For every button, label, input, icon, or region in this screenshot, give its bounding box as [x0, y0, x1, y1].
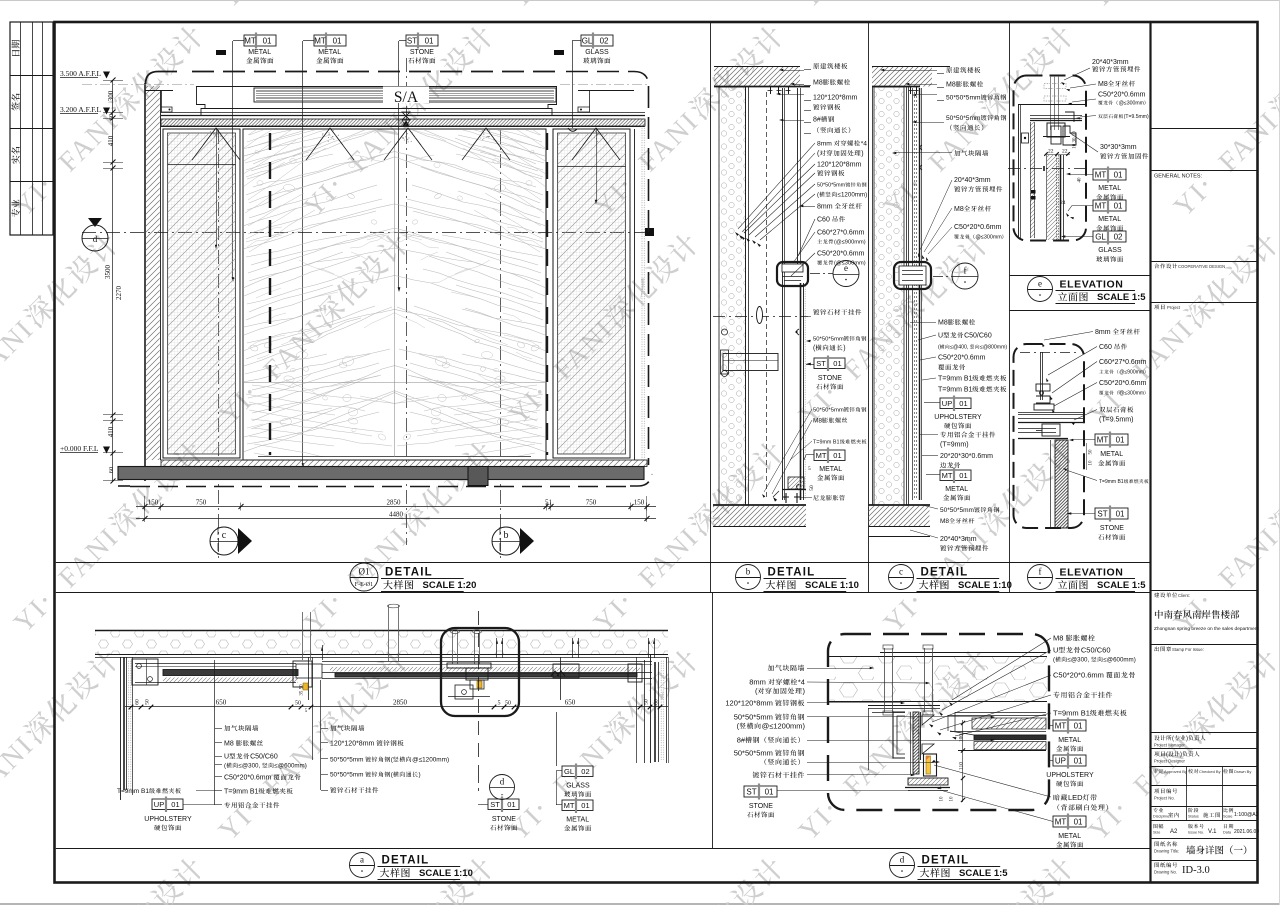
svg-text:b: b	[504, 530, 509, 541]
svg-text:02: 02	[581, 767, 589, 776]
svg-text:f: f	[1039, 567, 1042, 577]
svg-text:ST: ST	[746, 787, 756, 796]
detail d left wall below band	[868, 708, 870, 770]
svg-text:ELEVATION: ELEVATION	[1060, 567, 1124, 579]
detail a axis d	[478, 611, 480, 775]
svg-text:60: 60	[654, 699, 660, 705]
detail d angle clips	[922, 715, 934, 725]
svg-text:): )	[419, 772, 421, 779]
svg-text:Scale: Scale	[1223, 815, 1233, 819]
svg-text:(T=9mm): (T=9mm)	[940, 442, 969, 449]
svg-text:STONE: STONE	[749, 803, 773, 810]
finish tag GL02	[581, 35, 613, 46]
svg-text:MT: MT	[314, 36, 326, 45]
svg-text:02: 02	[1114, 232, 1123, 241]
svg-text:2850: 2850	[393, 699, 408, 707]
detail b annotations top	[813, 63, 819, 69]
svg-text:U: U	[938, 333, 943, 340]
detail a callout interior bolts	[452, 630, 454, 664]
panel divider lines	[710, 23, 712, 592]
detail a bolts through band left	[302, 612, 304, 660]
detail a tag ST01	[488, 799, 519, 810]
svg-text:Project No.: Project No.	[1154, 796, 1175, 801]
svg-text:GLASS: GLASS	[1098, 247, 1122, 254]
detail c floor slab	[869, 504, 931, 506]
svg-text:M8: M8	[946, 82, 956, 89]
svg-text:60: 60	[108, 467, 115, 474]
title block frame	[1149, 22, 1151, 883]
detail a callout box	[441, 628, 519, 716]
svg-text:410: 410	[107, 426, 115, 437]
detail c aerated block wall	[874, 87, 904, 505]
svg-text:8mm: 8mm	[817, 204, 833, 211]
detail c annotations	[946, 67, 952, 73]
svg-text:SCALE 1:10: SCALE 1:10	[958, 580, 1012, 591]
svg-text:-: -	[501, 790, 504, 799]
svg-text:@≤900mm: @≤900mm	[1119, 370, 1144, 376]
svg-text:T=9mm B1: T=9mm B1	[938, 387, 973, 394]
detail d stone column left	[913, 712, 919, 774]
svg-text:01: 01	[959, 399, 967, 408]
svg-text:UP: UP	[154, 800, 164, 809]
svg-text:DETAIL: DETAIL	[385, 567, 433, 579]
svg-text:120*120*8mm: 120*120*8mm	[330, 741, 375, 748]
svg-text:UPHOLSTERY: UPHOLSTERY	[1046, 772, 1094, 779]
svg-text:22: 22	[1062, 149, 1068, 155]
detail b stone hooks	[797, 329, 800, 490]
svg-text:8#: 8#	[737, 736, 746, 745]
svg-text:): )	[1180, 752, 1182, 758]
svg-text:U: U	[1053, 646, 1058, 655]
svg-text:ID-3.0: ID-3.0	[1182, 865, 1210, 876]
elevation f tag ST01	[1095, 508, 1128, 519]
svg-text:METAL: METAL	[566, 817, 589, 824]
elevation e central hatch column	[1047, 155, 1058, 240]
svg-text:120*120*8mm: 120*120*8mm	[813, 95, 858, 102]
S/A signage band	[196, 86, 557, 88]
detail d bottom trim	[908, 778, 948, 785]
svg-text:*4: *4	[861, 141, 868, 148]
svg-text:01: 01	[765, 787, 774, 796]
svg-text:M8: M8	[940, 518, 949, 525]
node marker rects	[216, 50, 226, 55]
elevation e tag MT01 no1	[1093, 169, 1126, 180]
svg-text:50*50*5mm: 50*50*5mm	[813, 408, 844, 414]
svg-text:M8: M8	[1098, 81, 1108, 88]
svg-text:U: U	[224, 754, 229, 761]
svg-text:COOPERATIVE DESIGN: COOPERATIVE DESIGN	[1178, 264, 1225, 269]
svg-text:Ø1: Ø1	[359, 567, 370, 577]
svg-text:Size: Size	[1153, 831, 1160, 835]
svg-text:GL: GL	[564, 767, 574, 776]
svg-text:Drawn By: Drawn By	[1234, 769, 1251, 774]
title block rows	[1152, 128, 1258, 130]
svg-text:C50*20*0.6mm: C50*20*0.6mm	[1053, 671, 1104, 680]
detail b ceiling runner callout	[777, 262, 808, 286]
svg-text:8mm: 8mm	[817, 141, 832, 148]
svg-text:LED: LED	[1068, 793, 1083, 802]
svg-text:750: 750	[196, 499, 207, 507]
detail c ceiling slab	[872, 66, 950, 68]
svg-text:Project: Project	[1167, 305, 1181, 310]
svg-text:(: (	[938, 345, 940, 351]
detail d tag UP01	[1053, 755, 1086, 766]
svg-text:8#: 8#	[813, 117, 821, 124]
svg-text:MT: MT	[942, 471, 953, 480]
vertical dimension chain left	[112, 80, 114, 481]
svg-text:a: a	[360, 855, 364, 865]
svg-text:01: 01	[1074, 756, 1083, 765]
svg-text:SCALE 1:5: SCALE 1:5	[959, 868, 1008, 879]
detail a hanger arrows	[496, 638, 498, 658]
svg-text:c: c	[222, 530, 227, 541]
elevation e mid level line	[1008, 168, 1090, 170]
svg-text:C50/C60: C50/C60	[964, 333, 992, 340]
level dash-dot extension lines	[82, 84, 194, 86]
svg-text:20*20*30*0.6mm: 20*20*30*0.6mm	[940, 453, 993, 460]
elevation f stone column	[1055, 440, 1068, 528]
svg-text:METAL: METAL	[248, 49, 271, 56]
revision table (left margin)	[10, 22, 53, 235]
svg-text:GL: GL	[582, 36, 593, 45]
svg-text:C60: C60	[1099, 344, 1112, 351]
svg-text:SCALE 1:5: SCALE 1:5	[1097, 580, 1146, 591]
svg-text:S/A: S/A	[394, 89, 419, 106]
detail a stone run	[322, 661, 652, 663]
detail a concrete wall band	[95, 630, 668, 632]
svg-text:01: 01	[1114, 170, 1123, 179]
svg-text:1:100@A2: 1:100@A2	[1234, 812, 1259, 818]
svg-text:DETAIL: DETAIL	[768, 567, 816, 579]
svg-text:C60: C60	[817, 217, 830, 224]
detail d tag MT01 no1	[1053, 720, 1086, 731]
svg-text:@≤1200mm): @≤1200mm)	[412, 757, 449, 764]
svg-text:02: 02	[600, 36, 609, 45]
svg-text:F-E-Ø1: F-E-Ø1	[355, 582, 373, 588]
detail a left jamb	[120, 657, 122, 800]
svg-text:UP: UP	[942, 399, 952, 408]
svg-text:GENERAL NOTES:: GENERAL NOTES:	[1154, 174, 1203, 180]
svg-text:(@≤300mm): (@≤300mm)	[834, 261, 866, 267]
svg-text:C50*20*0.6mm: C50*20*0.6mm	[938, 355, 986, 362]
elevation e gypsum layers	[1030, 115, 1082, 117]
detail d dashed rounded border	[828, 634, 1049, 810]
svg-text:MT: MT	[1097, 435, 1109, 444]
view title Ø1 DETAIL	[350, 563, 378, 591]
grid bubble c	[210, 527, 238, 555]
detail b tag ST01	[814, 358, 845, 369]
title block: cooperative design	[1154, 263, 1159, 268]
svg-text:M8: M8	[1053, 634, 1063, 643]
svg-text:MT: MT	[564, 801, 575, 810]
svg-text:d: d	[500, 777, 505, 787]
svg-text:M8: M8	[813, 80, 823, 87]
view title d DETAIL	[890, 853, 915, 878]
elevation f hanger C60	[1036, 384, 1050, 391]
detail c tag UP01	[940, 398, 971, 409]
svg-text:ST: ST	[407, 36, 417, 45]
svg-text:SCALE 1:20: SCALE 1:20	[423, 580, 477, 591]
svg-text:Client:: Client:	[1178, 593, 1190, 598]
floor boundary dashed	[118, 485, 130, 487]
svg-text:MT: MT	[1055, 817, 1067, 826]
detail d bolts	[884, 648, 886, 712]
vertical axis b	[500, 130, 502, 558]
svg-text:Drawing No.: Drawing No.	[1154, 870, 1177, 875]
svg-text:150: 150	[148, 499, 159, 507]
finish tag MT01 no.2	[314, 35, 346, 46]
svg-text:Approved By: Approved By	[1164, 769, 1187, 774]
detail c slab anchor bolts	[910, 87, 912, 94]
svg-text:01: 01	[263, 36, 272, 45]
svg-text:Checked By: Checked By	[1199, 769, 1221, 774]
svg-text:METAL: METAL	[1098, 216, 1121, 223]
vertical axis c	[218, 130, 220, 558]
detail b ceiling slab	[714, 66, 800, 68]
svg-text:ELEVATION: ELEVATION	[1060, 279, 1124, 291]
detail a text column 2	[330, 725, 336, 731]
svg-text:≤@300,: ≤@300,	[1068, 657, 1090, 664]
svg-text:51: 51	[545, 499, 553, 507]
svg-text:60: 60	[108, 114, 115, 121]
svg-text:Zhongnan spring breeze on the: Zhongnan spring breeze on the sales depa…	[1154, 626, 1259, 632]
svg-text:ST: ST	[1097, 509, 1107, 518]
svg-text:3500: 3500	[104, 265, 112, 280]
detail b bottom bracket	[788, 477, 804, 489]
svg-text:01: 01	[1074, 721, 1083, 730]
base skirting band	[161, 460, 647, 467]
elevation f tag MT01	[1095, 434, 1128, 445]
svg-text:50*50*5mm: 50*50*5mm	[734, 713, 773, 722]
svg-text:GLASS: GLASS	[566, 783, 590, 790]
svg-text:STONE: STONE	[410, 49, 434, 56]
svg-text:M8: M8	[954, 206, 964, 213]
svg-text:C50*20*0.6mm: C50*20*0.6mm	[1099, 380, 1147, 387]
detail b hanger level line	[713, 316, 808, 318]
title block: approved/checked/drawn	[1186, 766, 1188, 786]
title block: project no	[1154, 789, 1159, 794]
svg-text:01: 01	[333, 36, 342, 45]
svg-text:METAL: METAL	[318, 49, 341, 56]
detail d LED strip	[924, 754, 937, 776]
svg-text:M8: M8	[938, 320, 948, 327]
svg-text:50*50*5mm: 50*50*5mm	[330, 757, 363, 764]
svg-text:10 30 10: 10 30 10	[1073, 131, 1078, 149]
svg-text:(: (	[1172, 736, 1174, 742]
svg-text:SCALE 1:10: SCALE 1:10	[419, 868, 473, 879]
detail d LED annotation	[1054, 794, 1060, 800]
svg-text:50: 50	[295, 701, 301, 707]
svg-text:20*40*3mm: 20*40*3mm	[954, 177, 991, 184]
svg-text:e: e	[1038, 279, 1042, 289]
elevation f dashed border	[1014, 344, 1085, 528]
svg-text:Issue No.: Issue No.	[1188, 831, 1204, 835]
svg-text:750: 750	[586, 499, 597, 507]
svg-text:≤@800mm): ≤@800mm)	[980, 345, 1007, 351]
svg-text:STONE: STONE	[492, 816, 516, 823]
title block: client	[1154, 592, 1159, 597]
svg-text:M8: M8	[813, 418, 822, 425]
svg-text:300: 300	[107, 90, 115, 101]
hanger tent symbols	[192, 128, 240, 160]
left crosshatch panel	[163, 129, 240, 458]
svg-text:110: 110	[959, 762, 965, 770]
svg-text:50*50*5mm: 50*50*5mm	[330, 772, 363, 779]
svg-text:20*40*3mm: 20*40*3mm	[940, 536, 977, 543]
svg-text:Data: Data	[1223, 831, 1232, 835]
svg-text:): )	[1186, 736, 1188, 742]
ceiling lower edge and trim hatch	[161, 112, 645, 114]
detail c hook symbol	[920, 145, 922, 170]
svg-text:*4: *4	[798, 678, 805, 687]
svg-text:d: d	[900, 855, 905, 865]
svg-text:MT: MT	[244, 36, 256, 45]
horizontal centerline axis	[82, 232, 650, 234]
svg-text:50*50*5mm: 50*50*5mm	[817, 183, 846, 189]
detail b aerated block wall	[719, 87, 746, 505]
svg-text:@≤1200mm): @≤1200mm)	[762, 722, 806, 731]
svg-text:01: 01	[959, 471, 967, 480]
title block: stamp for issue	[1154, 646, 1159, 651]
svg-text:50: 50	[145, 699, 151, 705]
view title c DETAIL	[889, 565, 914, 590]
svg-text:T=9mm B1: T=9mm B1	[117, 788, 149, 795]
svg-text:650: 650	[565, 699, 576, 707]
panel joint thick dashes	[269, 133, 271, 455]
svg-text:b: b	[746, 567, 751, 577]
detail a mid bracket assembly	[293, 661, 312, 687]
svg-text:GL: GL	[1095, 232, 1106, 241]
ceiling wall end caps	[146, 90, 174, 92]
svg-text:50: 50	[1089, 449, 1094, 455]
svg-text:01: 01	[1116, 509, 1125, 518]
detail a mid-span bolts	[388, 605, 390, 662]
svg-text:METAL: METAL	[945, 486, 968, 493]
elevation f bracket mid	[1042, 424, 1060, 436]
svg-text:22: 22	[1048, 149, 1054, 155]
elevation e plate line	[1018, 104, 1085, 106]
detail a tag MT01	[562, 800, 593, 811]
elevation e face lines	[1056, 155, 1058, 240]
detail a text column 1	[224, 725, 230, 731]
detail a break symbol	[551, 671, 565, 676]
svg-text:120*120*8mm: 120*120*8mm	[817, 162, 862, 169]
svg-text:50*50*5mm: 50*50*5mm	[940, 507, 974, 514]
leader arrows inside panels	[216, 128, 218, 245]
svg-text:Project Designer: Project Designer	[1154, 759, 1186, 764]
detail c bubble f	[933, 276, 952, 278]
svg-text:50: 50	[809, 485, 815, 491]
svg-text:MT: MT	[1095, 170, 1107, 179]
svg-text:METAL: METAL	[1100, 451, 1123, 458]
svg-text:V.1: V.1	[1208, 829, 1217, 835]
detail a left corner clip	[132, 659, 158, 685]
svg-text:SCALE 1:10: SCALE 1:10	[805, 580, 859, 591]
detail d metal ceiling layers	[955, 712, 1046, 714]
svg-text:d: d	[93, 234, 98, 244]
svg-text:01: 01	[171, 800, 179, 809]
elevation f interior top	[1020, 352, 1080, 354]
svg-text:50*50*5mm: 50*50*5mm	[946, 115, 981, 122]
svg-text:01: 01	[507, 800, 515, 809]
detail a extra up arrows	[322, 645, 324, 660]
svg-text:METAL: METAL	[819, 466, 842, 473]
elevation e hanger bracket	[1047, 123, 1065, 137]
detail b cross plate	[723, 354, 778, 371]
svg-text:@≤300mm: @≤300mm	[1119, 101, 1144, 107]
svg-text:≤1200mm): ≤1200mm)	[838, 192, 868, 199]
svg-text:3.500 A.F.F.L: 3.500 A.F.F.L	[60, 69, 102, 78]
elevation e left wall layers	[1018, 105, 1020, 238]
detail d dim chain right	[962, 720, 964, 802]
svg-text:MT: MT	[816, 451, 827, 460]
svg-text:STONE: STONE	[818, 375, 842, 382]
svg-text:ST: ST	[816, 359, 826, 368]
svg-text:50: 50	[644, 699, 650, 705]
svg-text:Drawing Title:: Drawing Title:	[1154, 849, 1179, 854]
svg-text:DETAIL: DETAIL	[382, 855, 430, 867]
svg-text:Project Manager: Project Manager	[1154, 743, 1185, 748]
vertical center axis	[406, 58, 408, 545]
right crosshatch panel	[553, 129, 630, 458]
svg-text:Status: Status	[1188, 815, 1199, 819]
svg-text:120*120*8mm: 120*120*8mm	[725, 699, 773, 708]
svg-text:01: 01	[581, 801, 589, 810]
svg-text:≤@600mm): ≤@600mm)	[1103, 657, 1135, 664]
svg-text:@≤300mm: @≤300mm	[1119, 391, 1144, 397]
svg-text:150: 150	[634, 499, 645, 507]
marble stone field	[243, 129, 546, 460]
svg-text:): )	[843, 345, 845, 352]
detail d C channel	[893, 712, 905, 758]
svg-text:+0.000 F.F.L: +0.000 F.F.L	[60, 444, 99, 453]
svg-text:2021.06.09: 2021.06.09	[1234, 829, 1259, 835]
detail b tag MT01	[814, 450, 845, 461]
svg-text:(@≤900mm): (@≤900mm)	[834, 240, 866, 246]
svg-text:60: 60	[135, 699, 141, 705]
svg-text:f: f	[964, 266, 967, 276]
detail d tag ST01	[744, 786, 777, 797]
svg-text:01: 01	[833, 359, 841, 368]
svg-text:UP: UP	[1055, 756, 1066, 765]
svg-text:01: 01	[425, 36, 434, 45]
detail d left annotations	[768, 665, 774, 671]
view title a DETAIL	[350, 853, 375, 878]
svg-text:50*50*5mm: 50*50*5mm	[946, 95, 981, 102]
detail c studs	[912, 88, 914, 500]
detail a right corner	[636, 657, 638, 763]
title block: size/issue/date	[1154, 824, 1158, 828]
bottom dimension chain	[136, 506, 656, 508]
svg-text:C50*20*0.6mm: C50*20*0.6mm	[1098, 92, 1146, 99]
svg-text:≤@400,: ≤@400,	[950, 345, 968, 351]
svg-text:C50*20*0.6mm: C50*20*0.6mm	[954, 224, 1002, 231]
svg-text:01: 01	[1114, 201, 1123, 210]
finish tag MT01 no.1	[244, 35, 276, 46]
svg-text:(T=9.5mm): (T=9.5mm)	[1124, 114, 1149, 120]
svg-text:T=9mm B1: T=9mm B1	[938, 376, 973, 383]
svg-text:T=9mm B1: T=9mm B1	[1053, 709, 1090, 718]
grid bubble b	[492, 527, 520, 555]
detail b stone face	[800, 283, 802, 500]
svg-text:GLASS: GLASS	[585, 49, 609, 56]
svg-text:DETAIL: DETAIL	[921, 567, 969, 579]
title block: project manager	[1154, 735, 1159, 740]
svg-text:410: 410	[107, 135, 115, 146]
svg-text:T=9mm B1: T=9mm B1	[224, 789, 259, 796]
detail d top plate	[880, 652, 1046, 654]
detail a upholstery panel bar	[135, 663, 296, 665]
